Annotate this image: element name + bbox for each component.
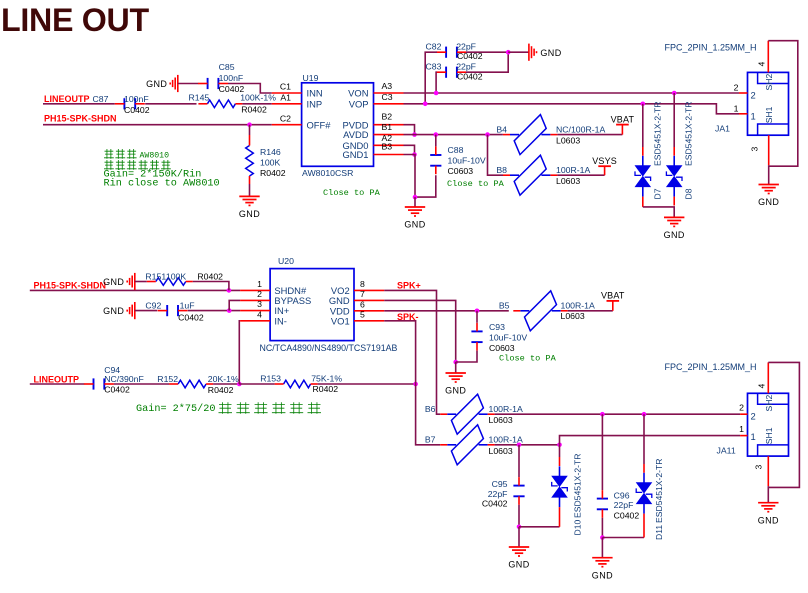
- wire C96 gnd stem: [601, 538, 603, 558]
- svg-text:100nF: 100nF: [219, 73, 244, 83]
- svg-text:NC/TCA4890/NS4890/TCS7191AB: NC/TCA4890/NS4890/TCS7191AB: [260, 343, 398, 353]
- svg-text:1: 1: [734, 103, 739, 113]
- svg-text:FPC_2PIN_1.25MM_H: FPC_2PIN_1.25MM_H: [665, 42, 757, 52]
- junction PVDD AVDD: [412, 132, 417, 137]
- svg-text:10uF-10V: 10uF-10V: [448, 156, 486, 166]
- svg-text:8: 8: [360, 279, 365, 289]
- svg-text:R0402: R0402: [313, 384, 339, 394]
- svg-text:R151: R151: [145, 271, 166, 281]
- power VSYS: [604, 166, 606, 175]
- svg-text:2: 2: [739, 403, 744, 413]
- pin INP: [272, 103, 302, 105]
- wire D10 bottom: [559, 507, 561, 527]
- wire to ground stem: [414, 197, 416, 207]
- svg-text:20K-1%: 20K-1%: [208, 374, 239, 384]
- junction D8 on VON: [672, 91, 677, 96]
- svg-text:GND1: GND1: [342, 149, 368, 160]
- svg-text:Close to PA: Close to PA: [447, 179, 505, 189]
- wire GND0 to GND1: [404, 145, 415, 154]
- ground GND below C96: [592, 557, 612, 559]
- svg-text:INN: INN: [307, 88, 323, 99]
- pin AVDD: [374, 134, 404, 136]
- wire D8 riser: [673, 93, 675, 147]
- wire C87 to R145: [145, 103, 196, 105]
- svg-text:B6: B6: [425, 404, 436, 414]
- power VBAT 2: [612, 301, 614, 311]
- svg-text:VO1: VO1: [331, 315, 350, 326]
- comment Chinese note default AW8010: [104, 149, 137, 159]
- ferrite bead B6: [451, 394, 483, 434]
- svg-text:NC/390nF: NC/390nF: [104, 374, 144, 384]
- wire D7 bottom: [642, 197, 644, 207]
- connector JA1: [748, 72, 789, 135]
- wire U20 GND down: [384, 300, 456, 362]
- svg-text:C0402: C0402: [219, 84, 245, 94]
- svg-text:R145: R145: [189, 93, 210, 103]
- wire SPK- riser: [384, 321, 440, 445]
- svg-text:L0603: L0603: [489, 446, 513, 456]
- ground GND below D8: [664, 216, 684, 218]
- junction B8 branch: [485, 132, 490, 137]
- svg-text:L0603: L0603: [561, 311, 585, 321]
- comment Chinese note gain TBD: [104, 160, 171, 170]
- svg-text:1: 1: [257, 279, 262, 289]
- svg-text:C0402: C0402: [482, 498, 508, 508]
- junction R152 R153 IN-: [237, 382, 242, 387]
- svg-text:D11: D11: [654, 525, 664, 540]
- wire B4 to VBAT: [557, 134, 622, 136]
- wire R153 to SPK- riser: [318, 383, 416, 385]
- svg-text:IN-: IN-: [274, 315, 287, 326]
- svg-text:AW8010: AW8010: [140, 152, 170, 161]
- pin VOP: [374, 103, 404, 105]
- wire D8 bottom: [673, 197, 675, 206]
- pin 1 JA1: [739, 113, 748, 115]
- svg-text:100R-1A: 100R-1A: [556, 165, 590, 175]
- pin 3 JA11: [767, 456, 769, 486]
- svg-text:C1: C1: [280, 82, 291, 92]
- ground GND at R151: [134, 273, 136, 290]
- diode D8 ESD5451X-2-TR: [667, 166, 682, 176]
- svg-text:4: 4: [757, 384, 767, 389]
- ground GND at C85: [177, 75, 179, 92]
- ground GND top right: [528, 44, 530, 61]
- svg-text:Close to PA: Close to PA: [323, 188, 381, 198]
- svg-text:A3: A3: [382, 81, 393, 91]
- svg-text:6: 6: [360, 299, 365, 309]
- wire C82 left riser: [425, 52, 437, 104]
- svg-text:2: 2: [751, 411, 756, 422]
- svg-text:GND: GND: [103, 306, 124, 316]
- svg-text:100R-1A: 100R-1A: [489, 404, 523, 414]
- wire C95 gnd stem: [518, 527, 520, 547]
- pin 4 JA1: [767, 41, 769, 73]
- svg-text:C0402: C0402: [614, 510, 640, 520]
- wire junction to R153: [239, 383, 274, 385]
- ground GND below C95: [509, 546, 529, 548]
- capacitor C93: [476, 311, 478, 323]
- svg-text:22pF: 22pF: [614, 500, 634, 510]
- ground GND below R146: [239, 195, 259, 197]
- svg-text:LINE OUT: LINE OUT: [1, 2, 149, 38]
- svg-text:D8: D8: [684, 188, 694, 199]
- svg-text:2: 2: [751, 89, 756, 100]
- ferrite bead B7: [451, 425, 483, 465]
- wire gnd stem U20: [455, 362, 457, 373]
- wire JA11 pin1 riser: [560, 436, 741, 445]
- wire B8 drop: [488, 135, 504, 176]
- resistor R145: [207, 100, 235, 108]
- svg-text:3: 3: [750, 147, 760, 152]
- wire D7 riser: [642, 104, 644, 147]
- pin PVDD: [374, 124, 404, 126]
- svg-text:C96: C96: [614, 490, 630, 500]
- pin GND1: [374, 154, 404, 156]
- svg-text:C0402: C0402: [104, 385, 130, 395]
- svg-text:SH1: SH1: [764, 427, 774, 444]
- svg-text:C2: C2: [280, 113, 291, 123]
- svg-text:7: 7: [360, 289, 365, 299]
- svg-text:OFF#: OFF#: [307, 119, 332, 130]
- svg-text:GND: GND: [146, 79, 167, 89]
- wire C82 right to GND join: [466, 51, 508, 53]
- wire LINEOUTP to C94: [30, 383, 84, 385]
- svg-text:GND: GND: [329, 295, 350, 306]
- ferrite bead B4: [514, 115, 546, 155]
- svg-text:ESD5451X-2-TR: ESD5451X-2-TR: [654, 459, 664, 523]
- junction C88 gnd join: [413, 195, 418, 200]
- diode D10 ESD5451X-2-TR: [552, 476, 567, 486]
- pin VO1: [354, 320, 384, 322]
- junction C88 top: [434, 132, 439, 137]
- wire GND to C85: [178, 83, 198, 85]
- wire D10 riser: [559, 445, 561, 457]
- svg-text:100nF: 100nF: [124, 94, 149, 104]
- svg-text:C87: C87: [93, 94, 109, 104]
- svg-text:C92: C92: [145, 300, 161, 310]
- svg-text:22pF: 22pF: [488, 489, 508, 499]
- pin IN-: [240, 320, 270, 322]
- svg-text:AVDD: AVDD: [343, 129, 369, 140]
- svg-text:ESD5451X-2-TR: ESD5451X-2-TR: [684, 102, 694, 166]
- wire IN- riser: [238, 321, 241, 384]
- svg-text:C0402: C0402: [124, 105, 150, 115]
- ferrite bead B8: [514, 155, 546, 195]
- wire C88 bottom: [415, 175, 436, 197]
- svg-text:A1: A1: [280, 92, 291, 102]
- capacitor C82: [445, 47, 447, 58]
- capacitor C95: [518, 445, 520, 477]
- wire B6 to JA11 pin2: [495, 413, 740, 415]
- svg-text:GND: GND: [758, 197, 779, 207]
- resistor R153: [284, 380, 311, 388]
- wire B8 to VSYS: [557, 174, 604, 176]
- pin VON: [374, 92, 404, 94]
- ground GND at C92: [134, 302, 136, 319]
- svg-text:INP: INP: [307, 98, 323, 109]
- svg-text:C0603: C0603: [489, 343, 515, 353]
- capacitor C96: [601, 414, 603, 490]
- svg-text:1: 1: [751, 111, 756, 122]
- pin VO2: [354, 289, 384, 291]
- svg-text:GND: GND: [592, 570, 613, 580]
- svg-text:SH2: SH2: [764, 74, 774, 91]
- wire SPK+ to B6: [384, 290, 440, 414]
- pin BYPASS: [240, 299, 270, 301]
- capacitor C92: [166, 305, 168, 316]
- wire C96 to D11 bottom: [602, 537, 644, 539]
- svg-text:1: 1: [751, 431, 756, 442]
- wire R146 to GND: [249, 184, 251, 196]
- svg-text:VSYS: VSYS: [592, 156, 617, 166]
- svg-text:VBAT: VBAT: [601, 291, 625, 301]
- svg-text:100K: 100K: [166, 271, 186, 281]
- svg-text:GND: GND: [508, 560, 529, 570]
- wire PH15-SPK-SHDN to U20 SHDN#: [30, 289, 240, 291]
- pin GND0: [374, 144, 404, 146]
- resistor R152: [178, 380, 206, 388]
- pin 2 JA11: [740, 413, 747, 415]
- wire C85 to U19 INN: [228, 84, 272, 94]
- svg-text:22pF: 22pF: [456, 41, 476, 51]
- svg-text:VBAT: VBAT: [611, 114, 635, 124]
- svg-text:10uF-10V: 10uF-10V: [489, 333, 527, 343]
- junction R153 SPK-: [413, 382, 418, 387]
- svg-text:C82: C82: [426, 41, 442, 51]
- svg-text:4: 4: [757, 62, 767, 67]
- svg-text:GND: GND: [540, 48, 561, 58]
- pin 1 JA11: [740, 435, 747, 437]
- wire to GND top right: [508, 51, 529, 53]
- svg-text:SH2: SH2: [764, 395, 774, 412]
- capacitor C88: [435, 135, 437, 147]
- svg-text:D7: D7: [653, 188, 663, 199]
- wire PH15-SPK-SHDN to U19 OFF#: [43, 124, 272, 126]
- wire VON net: [404, 92, 740, 94]
- diode D11 ESD5451X-2-TR: [637, 483, 652, 493]
- svg-text:L0603: L0603: [489, 415, 513, 425]
- svg-text:GND: GND: [103, 277, 124, 287]
- junction C96 riser: [600, 412, 605, 417]
- svg-text:B5: B5: [499, 301, 510, 311]
- svg-text:75K-1%: 75K-1%: [311, 374, 342, 384]
- svg-text:D10: D10: [573, 520, 583, 536]
- svg-text:LINEOUTP: LINEOUTP: [44, 94, 90, 104]
- svg-text:Gain= 2*75/20: Gain= 2*75/20: [136, 403, 215, 415]
- svg-text:JA11: JA11: [717, 445, 736, 455]
- wire GND to R151: [135, 281, 147, 283]
- svg-text:C0603: C0603: [448, 166, 474, 176]
- svg-text:R0402: R0402: [197, 271, 223, 281]
- svg-text:B2: B2: [382, 112, 393, 122]
- svg-text:VON: VON: [348, 88, 368, 99]
- wire pin3 to gnd JA1: [768, 165, 770, 184]
- svg-text:C95: C95: [492, 479, 508, 489]
- svg-text:GND: GND: [445, 386, 466, 396]
- junction C96 gnd: [600, 535, 605, 540]
- svg-text:U20: U20: [278, 256, 294, 266]
- pin OFF#: [272, 124, 302, 126]
- svg-text:5: 5: [360, 309, 365, 319]
- connector JA11: [748, 393, 789, 456]
- wire R145 to U19 INP: [242, 103, 271, 105]
- wire D11 riser: [643, 414, 645, 464]
- svg-text:B4: B4: [496, 124, 507, 134]
- junction D7 on VOP: [641, 102, 646, 107]
- svg-text:L0603: L0603: [556, 136, 580, 146]
- ground GND below U20: [446, 372, 466, 374]
- svg-text:B7: B7: [425, 435, 436, 445]
- svg-text:100K: 100K: [260, 157, 280, 167]
- svg-text:PH15-SPK-SHDN: PH15-SPK-SHDN: [44, 113, 117, 123]
- svg-text:B1: B1: [382, 122, 393, 132]
- svg-text:C83: C83: [426, 61, 442, 71]
- wire C96 bottom: [601, 518, 603, 538]
- pin 2 JA1: [739, 92, 748, 94]
- svg-text:2: 2: [734, 83, 739, 93]
- capacitor C85: [207, 78, 209, 89]
- svg-text:C93: C93: [489, 322, 505, 332]
- svg-text:Close to PA: Close to PA: [499, 353, 557, 363]
- pin 3 JA1: [768, 135, 770, 165]
- svg-text:ESD5451X-2-TR: ESD5451X-2-TR: [573, 454, 583, 518]
- svg-text:C88: C88: [448, 145, 464, 155]
- svg-text:1: 1: [739, 424, 744, 434]
- svg-text:GND: GND: [758, 515, 779, 525]
- svg-text:U19: U19: [303, 73, 319, 83]
- wire R152 to junction: [213, 383, 239, 385]
- svg-text:PH15-SPK-SHDN: PH15-SPK-SHDN: [34, 280, 107, 290]
- svg-text:B8: B8: [496, 165, 507, 175]
- junction C83 on VON: [434, 91, 439, 96]
- junction C93 top: [475, 309, 480, 314]
- svg-text:100R-1A: 100R-1A: [561, 301, 595, 311]
- svg-text:GND: GND: [404, 220, 425, 230]
- wire R151 to SHDN net: [193, 282, 229, 291]
- ground GND JA1: [759, 184, 779, 186]
- svg-text:GND: GND: [239, 209, 260, 219]
- pin SHDN#: [240, 289, 270, 291]
- svg-text:C0402: C0402: [178, 312, 204, 322]
- wire pin4 route JA1: [768, 41, 798, 167]
- capacitor C94: [93, 378, 95, 389]
- svg-text:R0402: R0402: [241, 105, 267, 115]
- svg-text:C3: C3: [382, 92, 393, 102]
- capacitor C83: [445, 67, 447, 78]
- wire C83 left riser: [435, 72, 438, 93]
- junction BYPASS branch: [227, 308, 232, 313]
- svg-text:GND: GND: [664, 230, 685, 240]
- wire D11 bottom: [643, 514, 645, 538]
- svg-text:R152: R152: [157, 374, 178, 384]
- junction D10 pin1: [557, 443, 562, 448]
- svg-text:SPK+: SPK+: [397, 280, 421, 290]
- wire C95 to D10 bottom: [519, 526, 560, 528]
- wire AVDD net: [404, 134, 503, 136]
- wire GND1 down: [404, 155, 416, 198]
- diode D7 ESD5451X-2-TR: [636, 166, 651, 176]
- junction C95 gnd: [517, 525, 522, 530]
- svg-text:Rin close to AW8010: Rin close to AW8010: [104, 178, 220, 190]
- svg-text:R0402: R0402: [208, 385, 234, 395]
- ground GND JA11: [758, 502, 778, 504]
- svg-text:C85: C85: [219, 62, 235, 72]
- junction GND0 GND1: [412, 152, 417, 157]
- svg-text:1uF: 1uF: [180, 300, 195, 310]
- svg-text:NC/100R-1A: NC/100R-1A: [556, 124, 605, 134]
- svg-text:3: 3: [754, 465, 764, 470]
- wire pin4 route JA11: [768, 362, 799, 487]
- pin 4 JA11: [767, 362, 769, 393]
- pin VDD: [354, 310, 384, 312]
- junction C95 top: [517, 443, 522, 448]
- resistor R151: [156, 278, 186, 286]
- wire D7 D8 ground bus: [643, 207, 674, 218]
- wire BYPASS branch: [229, 300, 240, 310]
- svg-text:ESD5451X-2-TR: ESD5451X-2-TR: [653, 102, 663, 166]
- power VBAT: [621, 125, 623, 135]
- junction D11 riser: [642, 412, 647, 417]
- wire pin3 to gnd JA11: [767, 486, 769, 503]
- svg-text:FPC_2PIN_1.25MM_H: FPC_2PIN_1.25MM_H: [665, 362, 757, 372]
- capacitor C87: [123, 98, 125, 109]
- svg-text:R153: R153: [260, 374, 281, 384]
- wire C93 bottom: [456, 351, 477, 362]
- wire C83 right riser: [466, 52, 508, 72]
- wire C92 to IN+: [188, 310, 240, 312]
- svg-text:L0603: L0603: [556, 176, 580, 186]
- svg-text:JA1: JA1: [715, 123, 730, 133]
- svg-text:VOP: VOP: [349, 98, 369, 109]
- pin IN+: [240, 310, 270, 312]
- svg-text:100K-1%: 100K-1%: [240, 93, 276, 103]
- wire VOP net: [404, 104, 740, 114]
- wire B5 to VBAT: [568, 310, 613, 312]
- resistor R146: [249, 125, 251, 135]
- junction R151: [227, 288, 232, 293]
- svg-text:B3: B3: [382, 141, 393, 151]
- svg-text:3: 3: [257, 299, 262, 309]
- svg-text:R0402: R0402: [260, 168, 286, 178]
- ground GND below C88: [405, 206, 425, 208]
- svg-text:2: 2: [257, 289, 262, 299]
- pin GND U20: [354, 299, 384, 301]
- wire PVDD to AVDD: [404, 125, 415, 135]
- wire B7 to D10: [495, 444, 560, 446]
- wire C94 to R152: [114, 383, 169, 385]
- svg-text:R146: R146: [260, 147, 281, 157]
- junction C82 on VOP: [423, 102, 428, 107]
- pin INN: [272, 92, 302, 94]
- svg-text:22pF: 22pF: [456, 61, 476, 71]
- op-amp U19 AW8010CSR: [302, 83, 374, 167]
- ferrite bead B5: [525, 291, 557, 331]
- wire C95 bottom: [518, 505, 520, 527]
- svg-text:AW8010CSR: AW8010CSR: [302, 168, 353, 178]
- junction C82 C83 join: [506, 50, 511, 55]
- svg-text:4: 4: [257, 309, 262, 319]
- wire GND to C92: [135, 310, 157, 312]
- amplifier U20: [270, 269, 354, 341]
- wire LINEOUTP to C87: [43, 103, 115, 105]
- junction C93 bottom: [453, 360, 458, 365]
- wire VDD to B5: [384, 310, 509, 312]
- junction R146: [247, 122, 252, 127]
- svg-text:SH1: SH1: [764, 106, 774, 123]
- svg-text:LINEOUTP: LINEOUTP: [34, 374, 80, 384]
